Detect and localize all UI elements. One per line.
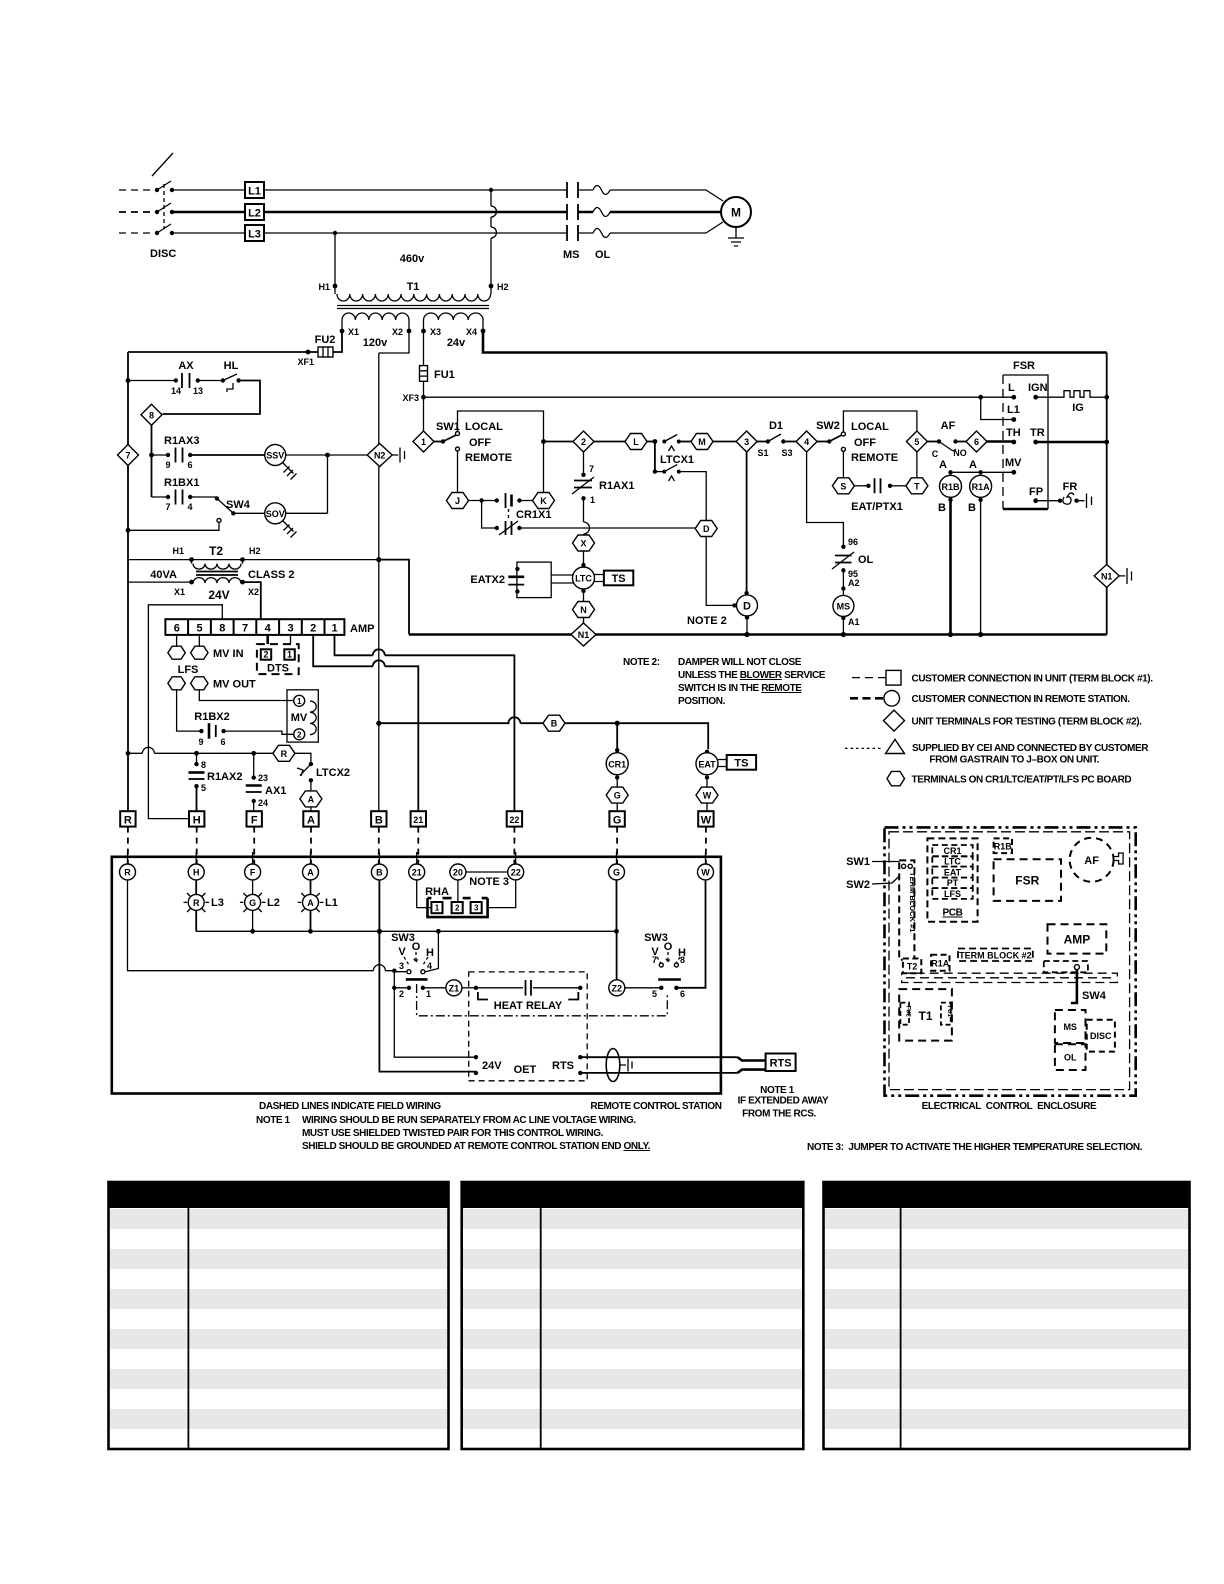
wire B column [379, 880, 476, 1072]
node X hexagon [573, 535, 595, 568]
svg-text:MS: MS [563, 249, 580, 261]
svg-text:TERM BLOCK #1: TERM BLOCK #1 [908, 872, 917, 932]
switch SW3 left [391, 931, 438, 999]
secondary 120v winding [341, 320, 343, 331]
svg-text:NOTE 2: NOTE 2 [687, 615, 727, 627]
MS starter box [1055, 1010, 1086, 1043]
contact R1BX2 [177, 690, 294, 747]
svg-text:DTS: DTS [267, 663, 289, 675]
svg-text:6: 6 [174, 623, 180, 635]
svg-text:FROM THE RCS.: FROM THE RCS. [742, 1109, 816, 1120]
svg-text:FU2: FU2 [315, 334, 336, 346]
terminal box W [698, 811, 713, 826]
svg-text:4: 4 [804, 437, 809, 447]
svg-text:REMOTE: REMOTE [851, 452, 898, 464]
svg-text:SOV: SOV [266, 509, 285, 519]
terminal box RTS external [766, 1054, 796, 1072]
node N hexagon [573, 602, 595, 624]
svg-text:SHIELD SHOULD BE GROUNDED AT R: SHIELD SHOULD BE GROUNDED AT REMOTE CONT… [302, 1141, 651, 1152]
svg-text:WIRING SHOULD BE RUN SEPARATEL: WIRING SHOULD BE RUN SEPARATELY FROM AC … [302, 1115, 636, 1126]
wire drop to H2 [489, 188, 497, 286]
svg-text:2: 2 [455, 904, 460, 913]
svg-text:H: H [193, 815, 201, 827]
svg-text:T2: T2 [907, 961, 918, 971]
svg-text:SW4: SW4 [226, 499, 251, 511]
svg-text:4: 4 [265, 623, 272, 635]
air flow switch AF [1070, 838, 1124, 882]
term block 2 [958, 949, 1033, 962]
resistor heat anticipator RHA [417, 872, 516, 917]
svg-text:G: G [249, 898, 256, 908]
solenoid SOV [265, 455, 328, 538]
svg-text:DASHED LINES INDICATE FIELD WI: DASHED LINES INDICATE FIELD WIRING [259, 1101, 441, 1112]
fuse FU2 [128, 331, 342, 357]
svg-text:K: K [540, 496, 547, 506]
wire 24v hot X4 to right rail [483, 331, 1107, 353]
svg-text:TS: TS [612, 573, 626, 585]
svg-text:FU2: FU2 [905, 1006, 911, 1018]
svg-text:W: W [703, 791, 712, 801]
node 2 diamond [544, 431, 595, 452]
term block 1 [899, 860, 917, 959]
wire TR to rail [1036, 441, 1107, 444]
svg-text:A: A [969, 459, 977, 471]
node J hexagon [447, 493, 469, 509]
contact D1 [757, 420, 797, 458]
svg-text:ELECTRICAL CONTROL ENCLOSURE: ELECTRICAL CONTROL ENCLOSURE [922, 1101, 1097, 1112]
enclosure outer border [885, 827, 1136, 1095]
svg-text:FU1: FU1 [434, 369, 455, 381]
svg-text:MV IN: MV IN [213, 648, 244, 660]
node H1 [318, 282, 337, 292]
motor ground [728, 227, 744, 246]
node S hexagon [832, 478, 854, 494]
svg-text:CLASS 2: CLASS 2 [248, 569, 294, 581]
svg-text:CR1X1: CR1X1 [516, 509, 551, 521]
svg-text:L: L [633, 437, 639, 447]
terminal box H [189, 811, 204, 826]
RCS enclosure box [112, 857, 721, 1094]
svg-text:1: 1 [590, 495, 595, 505]
svg-text:Z2: Z2 [612, 983, 623, 993]
svg-text:1: 1 [426, 989, 431, 999]
svg-text:OFF: OFF [469, 437, 491, 449]
overload OL heaters [593, 186, 611, 262]
callout SW2 [846, 868, 908, 891]
pc board PCB [927, 838, 977, 921]
legend [845, 670, 1153, 785]
T1 transformer box [899, 989, 952, 1041]
svg-text:DAMPER WILL NOT CLOSE: DAMPER WILL NOT CLOSE [678, 657, 802, 668]
switch SW3 right [625, 880, 706, 999]
svg-text:OFF: OFF [854, 437, 876, 449]
svg-text:3: 3 [744, 437, 749, 447]
wire R to SW3 [128, 880, 397, 990]
node B hexagon [543, 715, 565, 731]
svg-text:L1: L1 [1007, 404, 1020, 416]
svg-text:M: M [731, 206, 741, 220]
svg-text:N: N [580, 605, 587, 615]
motor M [721, 197, 751, 227]
node XF1 [297, 350, 314, 367]
timer OET dashed box [469, 972, 588, 1081]
node 5 diamond [906, 431, 927, 478]
svg-text:96: 96 [848, 537, 858, 547]
svg-text:L: L [1008, 382, 1015, 394]
svg-text:7: 7 [165, 502, 170, 512]
T2 transformer box [903, 959, 921, 974]
contactor MS contacts [563, 182, 580, 261]
svg-text:TERMINALS ON CR1/LTC/EAT/PT/LF: TERMINALS ON CR1/LTC/EAT/PT/LFS PC BOARD [912, 775, 1132, 786]
node W hexagon [696, 787, 718, 811]
hexagons MV IN [168, 635, 244, 660]
svg-text:OL: OL [858, 554, 874, 566]
relay Z1 [423, 980, 476, 996]
wire terminal 1 to 22 [335, 635, 515, 813]
svg-text:REMOTE: REMOTE [465, 452, 512, 464]
relay coil CR1 [606, 723, 628, 787]
svg-text:REMOTE CONTROL STATION: REMOTE CONTROL STATION [590, 1101, 721, 1112]
svg-text:OET: OET [514, 1064, 537, 1076]
svg-text:X1: X1 [348, 327, 359, 337]
svg-text:CR1: CR1 [608, 759, 626, 769]
wire T2 to bottom rail [379, 560, 409, 635]
hexagons MV OUT [168, 677, 256, 691]
node 8 diamond [141, 404, 162, 497]
svg-text:SW2: SW2 [816, 420, 840, 432]
sensor TS box (EAT) [718, 755, 756, 770]
svg-text:X1: X1 [174, 587, 185, 597]
svg-text:S3: S3 [781, 448, 792, 458]
svg-text:S: S [840, 481, 846, 491]
field wiring dashed drops [128, 827, 706, 864]
node L hexagon [594, 434, 647, 450]
note 2 text [623, 657, 826, 707]
svg-text:L1: L1 [248, 186, 261, 198]
svg-text:Z1: Z1 [449, 983, 460, 993]
svg-text:2: 2 [263, 650, 268, 660]
svg-text:X3: X3 [430, 327, 441, 337]
node N1 right rail [1094, 564, 1131, 587]
bottom rail N1 [409, 632, 1107, 637]
svg-text:H2: H2 [497, 282, 509, 292]
svg-text:5: 5 [652, 989, 657, 999]
wire XF3 to FSR L [424, 395, 1014, 420]
node 1 diamond [413, 397, 434, 452]
node N1 diamond left [571, 623, 596, 646]
node G hexagon [606, 787, 628, 811]
svg-text:2: 2 [399, 989, 404, 999]
switch SW4 [128, 496, 265, 530]
amplifier AMP box [1048, 924, 1107, 953]
igniter IG [1036, 391, 1107, 414]
wire 120v neutral X2 to N2 rail [379, 331, 409, 445]
svg-text:G: G [613, 815, 622, 827]
svg-text:UNLESS THE BLOWER SERVICE: UNLESS THE BLOWER SERVICE [678, 670, 826, 681]
svg-text:X: X [580, 539, 586, 549]
svg-text:L2: L2 [248, 208, 261, 220]
svg-text:TH: TH [1006, 427, 1021, 439]
terminal box B [371, 811, 386, 826]
svg-text:120v: 120v [363, 337, 388, 349]
wire G column to Z2 [616, 880, 618, 980]
svg-text:1: 1 [435, 904, 440, 913]
svg-text:4: 4 [427, 961, 432, 971]
svg-text:7: 7 [125, 451, 130, 461]
RCS terminal circles [120, 852, 714, 880]
svg-text:AMP: AMP [350, 623, 374, 635]
svg-text:H2: H2 [249, 546, 261, 556]
terminal box 21 [411, 811, 426, 826]
svg-text:EAT/PTX1: EAT/PTX1 [851, 501, 903, 513]
node N2 diamond [367, 444, 404, 467]
transformer T2 [128, 544, 381, 619]
contact R1BX1 [152, 477, 217, 512]
svg-text:NOTE 3: NOTE 3 [469, 876, 509, 888]
svg-text:L2: L2 [267, 897, 280, 909]
svg-text:R1BX2: R1BX2 [194, 711, 229, 723]
svg-text:FP: FP [1029, 486, 1043, 498]
svg-text:7: 7 [589, 464, 594, 474]
svg-text:PT: PT [947, 878, 959, 888]
svg-text:AMP: AMP [1064, 933, 1091, 947]
transformer T1 [335, 253, 491, 349]
svg-text:LTC: LTC [944, 857, 961, 867]
node 3 diamond [713, 431, 757, 452]
svg-text:2: 2 [310, 623, 316, 635]
svg-text:R1AX3: R1AX3 [164, 435, 199, 447]
svg-text:A: A [939, 459, 947, 471]
callout SW1 [846, 856, 901, 868]
svg-text:NOTE 2:: NOTE 2: [623, 657, 660, 668]
svg-text:NO: NO [953, 448, 967, 458]
lamp bus wire [196, 929, 619, 934]
svg-text:L3: L3 [248, 229, 261, 241]
svg-text:7: 7 [652, 955, 657, 965]
wire SW3 to OET 24V [394, 988, 476, 1057]
svg-text:8: 8 [219, 623, 225, 635]
svg-text:F: F [250, 868, 256, 878]
contact R1AX3 [152, 435, 265, 470]
relay Z2 [609, 980, 625, 996]
bottom notes [256, 1101, 1143, 1153]
svg-text:RHA: RHA [425, 886, 449, 898]
svg-text:IF EXTENDED AWAY: IF EXTENDED AWAY [738, 1096, 829, 1107]
svg-text:8: 8 [201, 760, 206, 770]
svg-text:F: F [251, 815, 258, 827]
contact LTCX2 [297, 762, 350, 791]
limit HL [163, 360, 260, 414]
svg-text:L3: L3 [211, 897, 224, 909]
wire terminal 2 to 21 [313, 635, 418, 813]
contact AF [927, 420, 966, 459]
svg-text:H1: H1 [172, 546, 184, 556]
svg-text:NOTE 1: NOTE 1 [760, 1085, 795, 1096]
svg-text:EAT: EAT [944, 868, 962, 878]
svg-text:G: G [613, 868, 620, 878]
svg-text:FU1: FU1 [946, 1006, 952, 1018]
svg-text:B: B [375, 815, 383, 827]
svg-text:1: 1 [297, 697, 302, 706]
node A hexagon [300, 791, 322, 813]
DISC box [1087, 1020, 1115, 1052]
wire L3 phase [119, 222, 723, 233]
svg-text:LOCAL: LOCAL [851, 421, 889, 433]
enclosure inner border [889, 832, 1130, 1090]
contact R1AX1 [572, 452, 634, 535]
overload contact OL [832, 537, 874, 596]
N2 rail to bottom [376, 467, 381, 814]
svg-text:O: O [664, 941, 673, 953]
svg-text:24: 24 [258, 798, 268, 808]
wire L2 phase [119, 211, 721, 213]
sensor EATX2 [470, 562, 573, 598]
relay coils R1B R1A [938, 459, 1014, 635]
table 1 [109, 1182, 449, 1449]
svg-text:2: 2 [581, 437, 586, 447]
svg-text:MV OUT: MV OUT [213, 679, 256, 691]
svg-text:A: A [308, 794, 315, 804]
svg-text:MUST USE SHIELDED TWISTED PAIR: MUST USE SHIELDED TWISTED PAIR FOR THIS … [302, 1128, 604, 1139]
svg-text:EAT: EAT [698, 759, 716, 769]
svg-text:6: 6 [220, 737, 225, 747]
svg-text:20: 20 [453, 868, 463, 878]
svg-text:2: 2 [297, 730, 302, 739]
svg-text:R: R [124, 868, 131, 878]
switch SW1 [434, 411, 546, 492]
relay R1A box [931, 955, 950, 971]
contact AX [128, 360, 203, 396]
svg-text:R1B: R1B [994, 841, 1013, 851]
left rail [126, 352, 131, 811]
svg-text:R1A: R1A [972, 482, 991, 492]
svg-text:W: W [701, 868, 710, 878]
svg-text:POSITION.: POSITION. [678, 696, 726, 707]
node D hexagon [695, 521, 717, 537]
flame rod FR [1036, 481, 1092, 508]
lamp L3 [184, 880, 224, 931]
lamp L2 [240, 880, 280, 931]
wire D hexagon to relay D [706, 537, 737, 608]
svg-text:FSR: FSR [1013, 360, 1035, 372]
svg-text:RTS: RTS [770, 1058, 792, 1070]
svg-text:21: 21 [412, 868, 422, 878]
node 4 diamond [796, 431, 817, 452]
svg-text:LFS: LFS [178, 664, 199, 676]
svg-text:AF: AF [941, 420, 956, 432]
OL box [1055, 1044, 1086, 1070]
svg-text:AX: AX [178, 360, 194, 372]
wire L1 phase [119, 190, 723, 201]
terminal strip AMP [165, 619, 374, 635]
lamp L1 [298, 880, 338, 931]
mechanical link dash-dot [417, 984, 668, 1016]
svg-text:EATX2: EATX2 [470, 574, 505, 586]
svg-text:13: 13 [193, 386, 203, 396]
svg-text:9: 9 [198, 737, 203, 747]
svg-text:LTCX2: LTCX2 [316, 767, 350, 779]
svg-text:IG: IG [1072, 402, 1084, 414]
svg-text:1: 1 [287, 650, 292, 660]
svg-text:D: D [743, 601, 751, 613]
svg-text:A1: A1 [848, 617, 860, 627]
node 7 diamond [118, 445, 139, 466]
svg-text:L1: L1 [325, 897, 338, 909]
svg-text:XF1: XF1 [297, 357, 314, 367]
svg-text:N2: N2 [374, 451, 386, 461]
heat relay contact [474, 980, 583, 1012]
contact CR1X1 [469, 493, 696, 535]
svg-text:S1: S1 [757, 448, 768, 458]
svg-text:SUPPLIED BY CEI AND CONNECTED: SUPPLIED BY CEI AND CONNECTED BY CUSTOME… [912, 743, 1149, 754]
svg-text:R1AX2: R1AX2 [207, 771, 242, 783]
switch SW2 [816, 411, 917, 478]
svg-text:PCB: PCB [943, 908, 963, 919]
svg-text:NOTE 1: NOTE 1 [256, 1115, 291, 1126]
svg-text:TR: TR [1030, 427, 1045, 439]
svg-text:R1AX1: R1AX1 [599, 480, 634, 492]
svg-text:UNIT TERMINALS FOR TESTING (TE: UNIT TERMINALS FOR TESTING (TERM BLOCK #… [912, 717, 1143, 728]
svg-text:HEAT RELAY: HEAT RELAY [494, 1000, 563, 1012]
svg-text:XF3: XF3 [402, 393, 419, 403]
svg-text:T: T [914, 481, 920, 491]
svg-text:HL: HL [224, 360, 239, 372]
terminal box G [609, 811, 624, 826]
svg-text:G: G [614, 791, 621, 801]
wire 4 to OL [807, 452, 844, 547]
wire drop to H1 [333, 231, 337, 286]
svg-text:R: R [281, 749, 288, 759]
svg-text:24V: 24V [482, 1060, 502, 1072]
svg-text:X4: X4 [466, 327, 477, 337]
right rail [1104, 353, 1109, 635]
svg-text:R1B: R1B [941, 482, 960, 492]
svg-text:3: 3 [474, 904, 479, 913]
wire B bus [379, 717, 708, 749]
node M hexagon [679, 434, 713, 450]
svg-text:C: C [932, 449, 939, 459]
svg-text:21: 21 [413, 815, 423, 825]
svg-text:FROM GASTRAIN TO J–BOX ON UNIT: FROM GASTRAIN TO J–BOX ON UNIT. [929, 755, 1099, 766]
svg-text:SSV: SSV [266, 451, 284, 461]
node 6 diamond [966, 431, 1014, 452]
svg-text:OL: OL [595, 249, 611, 261]
svg-text:23: 23 [258, 773, 268, 783]
svg-text:22: 22 [511, 868, 521, 878]
svg-text:SW2: SW2 [846, 879, 870, 891]
node T hexagon [906, 478, 928, 494]
switch SW4 box [1044, 961, 1107, 1003]
svg-text:MS: MS [1063, 1022, 1077, 1032]
wire terminal 8 to H [148, 605, 222, 819]
svg-text:3: 3 [399, 961, 404, 971]
svg-text:A: A [307, 898, 314, 908]
node R hexagon line [128, 745, 311, 762]
node H2 [489, 282, 509, 292]
svg-text:A: A [307, 815, 315, 827]
svg-text:40VA: 40VA [150, 569, 177, 581]
svg-text:X2: X2 [248, 587, 259, 597]
svg-text:1: 1 [421, 437, 426, 447]
svg-text:8: 8 [680, 955, 685, 965]
secondary 24v winding [423, 320, 425, 331]
fuse FU1 [420, 331, 455, 397]
terminal box 22 [507, 811, 522, 826]
svg-text:T1: T1 [407, 281, 420, 293]
svg-text:RTS: RTS [552, 1060, 574, 1072]
svg-text:J: J [455, 496, 460, 506]
svg-text:IGN: IGN [1028, 382, 1048, 394]
